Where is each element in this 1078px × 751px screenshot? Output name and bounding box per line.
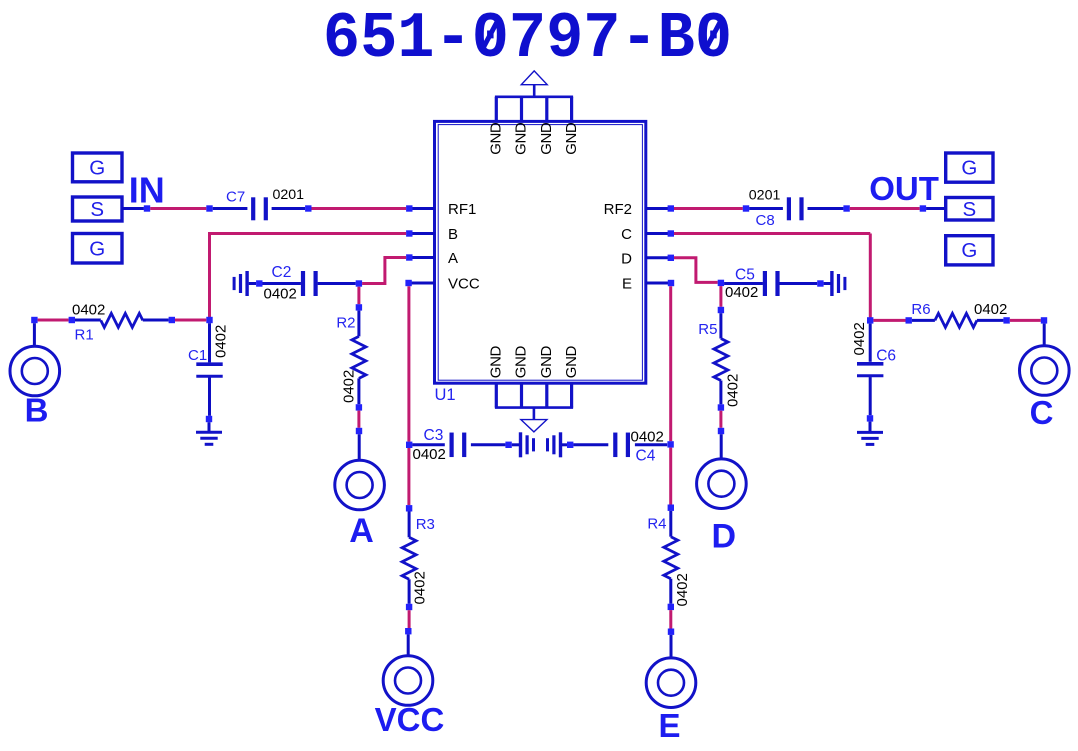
label VCC: [375, 701, 445, 738]
net A: [362, 258, 406, 284]
value 0402 (R1): [72, 301, 105, 318]
svg-text:651-0797-B0: 651-0797-B0: [323, 3, 732, 77]
label R2: [336, 315, 355, 332]
wire VCC pad stub: [407, 634, 410, 656]
resistor R5: [714, 339, 728, 381]
value 0402 (C1) rotated: [213, 325, 230, 358]
junction B/R1/C1 node: [206, 317, 212, 323]
IC U1 body: [435, 121, 646, 383]
wire C1 bottom lead: [208, 378, 211, 416]
label R5: [698, 321, 717, 338]
capacitor C5: [765, 271, 778, 296]
ground stack center-right: [548, 432, 561, 457]
wire R4 lead top: [669, 511, 672, 537]
svg-text:A: A: [349, 512, 374, 550]
net B vertical: [208, 232, 211, 318]
junction D pin: [668, 255, 674, 261]
wire D pad stub: [720, 434, 723, 459]
wire R5 lead top: [719, 313, 722, 338]
junction B pad stub: [31, 317, 37, 323]
junction VCC pin: [405, 280, 411, 286]
wire C8 right lead: [808, 207, 844, 210]
svg-text:B: B: [448, 226, 458, 243]
label C2: [272, 264, 292, 281]
junction R3 pin2: [406, 604, 412, 610]
net RF2 to C8: [674, 207, 743, 210]
junction R6 pin2: [1003, 317, 1009, 323]
value 0402 (C4): [631, 428, 664, 445]
svg-text:C3: C3: [424, 427, 444, 444]
svg-text:OUT: OUT: [869, 170, 939, 207]
wire R5 lead bottom: [719, 381, 722, 405]
wire S pad stub: [122, 207, 144, 210]
svg-text:0402: 0402: [725, 284, 758, 301]
wire C pad stub: [1043, 324, 1046, 346]
wire C5 gnd lead: [824, 282, 832, 285]
svg-text:C1: C1: [188, 347, 207, 364]
junction A pad stub: [356, 428, 362, 434]
svg-text:C6: C6: [876, 348, 896, 365]
title 651-0797-B0: [323, 3, 732, 77]
wire center to C4: [573, 443, 608, 446]
wire C5 left lead: [724, 282, 763, 285]
capacitor C8: [789, 197, 802, 220]
wire C8 left lead: [749, 207, 783, 210]
wire to left stack: [512, 443, 521, 446]
wire A pad stub: [358, 434, 361, 459]
resistor R1: [101, 313, 143, 327]
svg-text:0201: 0201: [749, 188, 781, 204]
resistor R3: [402, 537, 416, 579]
label R4: [647, 515, 666, 532]
net VCC vertical: [407, 286, 410, 441]
wire C5 right lead: [780, 282, 818, 285]
label C4: [636, 448, 656, 465]
svg-text:GND: GND: [488, 122, 505, 155]
svg-text:RF1: RF1: [448, 201, 476, 218]
net R3 to pad VCC: [408, 610, 411, 628]
junction S stub right: [920, 205, 926, 211]
junction B pin: [406, 230, 412, 236]
junction E pad stub: [668, 629, 674, 635]
wire C7 left lead: [213, 207, 248, 210]
label D: [712, 518, 737, 556]
label B: [25, 392, 49, 429]
power flag top: [521, 71, 547, 97]
svg-text:0402: 0402: [213, 325, 230, 358]
label IN: [129, 169, 165, 210]
svg-text:0402: 0402: [412, 571, 429, 604]
wire R3 lead bottom: [408, 579, 411, 604]
pad S left: [73, 197, 123, 221]
svg-text:R3: R3: [416, 516, 435, 533]
label C3: [424, 427, 444, 444]
wire C2 right lead: [318, 282, 356, 285]
pad G top-left: [73, 153, 123, 182]
net OUT wire: [850, 207, 920, 210]
pad C: [1020, 346, 1070, 396]
wire R4 lead bottom: [669, 579, 672, 604]
pad G bottom-left: [73, 234, 123, 264]
label R6: [911, 301, 930, 318]
svg-text:GND: GND: [513, 346, 530, 379]
svg-text:GND: GND: [488, 346, 505, 379]
junction C pin: [668, 230, 674, 236]
wire R6 lead left: [912, 319, 935, 322]
value 0402 (C5): [725, 284, 758, 301]
label C5: [735, 267, 755, 284]
junction R3 pin1: [406, 505, 412, 511]
net B horizontal: [210, 232, 407, 235]
junction D pad stub: [718, 428, 724, 434]
junction C8 right: [843, 205, 849, 211]
wire E pad stub: [670, 635, 673, 657]
junction C pad stub: [1041, 317, 1047, 323]
svg-text:U1: U1: [435, 386, 456, 404]
label C8: [756, 212, 775, 229]
svg-text:C: C: [621, 226, 632, 243]
svg-text:RF2: RF2: [604, 201, 632, 218]
value 0402 (C2): [264, 286, 297, 303]
pin D (right stub): [621, 250, 671, 267]
svg-text:C: C: [1030, 394, 1054, 431]
svg-text:GND: GND: [513, 122, 530, 155]
label C: [1030, 394, 1054, 431]
svg-text:C5: C5: [735, 267, 755, 284]
ground under C6: [857, 432, 883, 444]
pin E (right stub): [622, 276, 671, 293]
wire rail junction to C3: [412, 443, 444, 446]
junction C8 left: [743, 205, 749, 211]
junction R5 pin1: [718, 307, 724, 313]
net E vertical upper: [669, 286, 672, 441]
net node to R2: [357, 287, 360, 305]
wire B pad stub: [33, 323, 36, 346]
junction C7 left: [206, 205, 212, 211]
pin RF1 (left stub): [409, 201, 476, 218]
svg-text:C7: C7: [226, 189, 245, 206]
net D: [674, 258, 718, 283]
wire C4 to E net: [635, 443, 667, 446]
value 0402 (R4) rotated: [674, 573, 691, 606]
svg-text:C8: C8: [756, 212, 775, 229]
wire R1 lead left: [75, 319, 101, 322]
label E: [658, 707, 680, 744]
net VCC to R3: [407, 448, 410, 505]
junction RF2 pin: [668, 205, 674, 211]
junction C7 right: [305, 205, 311, 211]
junction A/C2/R2 node: [356, 280, 362, 286]
svg-text:R4: R4: [647, 515, 666, 532]
ground stack left of C2: [234, 271, 247, 296]
svg-text:IN: IN: [129, 169, 165, 210]
net R4 to pad E: [669, 610, 672, 628]
label A: [349, 512, 374, 550]
junction R2 pin1: [356, 304, 362, 310]
pins GND top labels: [488, 122, 580, 155]
junction C5 gnd: [817, 280, 823, 286]
junction A pin: [406, 254, 412, 260]
wire C1 ground stub: [208, 422, 211, 432]
junction R4 pin1: [668, 505, 674, 511]
pad VCC: [383, 656, 433, 706]
net node to R6: [873, 319, 905, 322]
pad E: [646, 658, 696, 708]
net C horizontal: [674, 232, 870, 235]
junction R1 pin2: [169, 317, 175, 323]
svg-text:0402: 0402: [851, 322, 868, 355]
wire R6 lead right: [977, 319, 1004, 322]
junction C2 gnd: [256, 280, 262, 286]
svg-text:D: D: [621, 250, 632, 267]
wire C6 ground stub: [869, 422, 872, 433]
top GND pins bracket: [495, 97, 573, 121]
net R1 to node: [175, 319, 206, 322]
svg-text:0402: 0402: [72, 301, 105, 318]
wire C3 to center: [471, 443, 506, 446]
net C vertical: [869, 234, 872, 319]
value 0402 (R2) rotated: [341, 370, 358, 403]
ground under C1: [196, 432, 222, 444]
pad G bottom-right: [946, 236, 993, 265]
svg-text:A: A: [448, 250, 458, 267]
U1 designator: [435, 386, 456, 404]
svg-text:0402: 0402: [341, 370, 358, 403]
capacitor C2: [303, 271, 316, 296]
wire R3 lead top: [408, 512, 411, 538]
svg-text:G: G: [89, 157, 105, 180]
pins GND bottom labels: [488, 346, 580, 379]
svg-text:0402: 0402: [725, 374, 742, 407]
pin C (right stub): [621, 226, 671, 243]
ground arrow bottom: [521, 408, 547, 432]
net IN to RF1: [312, 207, 407, 210]
wire C6 top lead: [869, 324, 872, 362]
pad D: [697, 459, 747, 509]
value 0402 (R6): [974, 301, 1007, 318]
pin VCC (left stub): [409, 276, 480, 293]
wire R2 lead bottom: [357, 378, 360, 404]
label C6: [876, 348, 896, 365]
svg-text:GND: GND: [563, 122, 580, 155]
value 0402 (C3): [413, 446, 446, 463]
junction E pin: [668, 280, 674, 286]
junction S stub: [144, 205, 150, 211]
svg-text:R6: R6: [911, 301, 930, 318]
junction R5 pin2: [718, 404, 724, 410]
svg-text:0402: 0402: [674, 573, 691, 606]
junction E rail: [667, 441, 673, 447]
value 0402 (C6) rotated: [851, 322, 868, 355]
wire C1 top lead: [208, 323, 211, 362]
junction R6 pin1: [906, 317, 912, 323]
net R6 to pad C: [1010, 319, 1041, 322]
svg-text:0201: 0201: [273, 187, 305, 203]
label OUT: [869, 170, 939, 207]
net R2 to pad A: [357, 411, 360, 428]
wire C7 right lead: [272, 207, 306, 210]
net R5 to pad D: [719, 411, 722, 428]
junction center-left: [505, 442, 511, 448]
junction C/R6/C6 node: [867, 317, 873, 323]
value 0402 (R3) rotated: [412, 571, 429, 604]
junction center-right: [567, 442, 573, 448]
junction VCC rail: [406, 442, 412, 448]
wire C6 bottom lead: [869, 377, 872, 415]
junction R4 pin2: [668, 604, 674, 610]
net node to R5: [719, 286, 722, 307]
pad A: [335, 460, 385, 510]
junction R1 pin1: [69, 317, 75, 323]
svg-text:0402: 0402: [974, 301, 1007, 318]
wire R1 lead right: [143, 319, 169, 322]
svg-text:E: E: [658, 707, 680, 744]
ground stack center-left: [521, 432, 534, 457]
capacitor C4: [615, 433, 628, 458]
capacitor C3: [452, 433, 465, 458]
bottom GND pins bracket: [495, 384, 573, 408]
net E to R4: [669, 448, 672, 505]
label R1: [75, 327, 94, 344]
junction C6 ground: [867, 415, 873, 421]
pin B (left stub): [409, 226, 458, 243]
label C1: [188, 347, 207, 364]
pad B: [10, 346, 60, 396]
svg-text:C4: C4: [636, 448, 656, 465]
pin RF2 (right stub): [604, 201, 671, 218]
capacitor C1: [196, 364, 222, 376]
wire right stack to junction: [562, 443, 567, 446]
wire S pad stub right: [926, 207, 946, 210]
svg-text:GND: GND: [538, 122, 555, 155]
svg-text:D: D: [712, 518, 737, 556]
wire C2 gnd lead: [249, 282, 256, 285]
value 0201 (C8): [749, 188, 781, 204]
pad G top-right: [946, 153, 993, 182]
net IN wire: [150, 207, 206, 210]
resistor R6: [935, 313, 977, 327]
wire C2 left lead: [263, 282, 301, 285]
net B pad to R1: [38, 319, 69, 322]
capacitor C7: [253, 197, 266, 220]
svg-text:GND: GND: [563, 346, 580, 379]
pad S right: [946, 198, 993, 222]
junction C1 ground: [206, 416, 212, 422]
label R3: [416, 516, 435, 533]
svg-text:R5: R5: [698, 321, 717, 338]
svg-text:GND: GND: [538, 346, 555, 379]
svg-text:G: G: [961, 239, 977, 262]
svg-text:0402: 0402: [631, 428, 664, 445]
junction VCC pad stub: [405, 628, 411, 634]
resistor R4: [664, 537, 678, 579]
svg-text:R1: R1: [75, 327, 94, 344]
value 0402 (R5) rotated: [725, 374, 742, 407]
wire R2 lead top: [357, 311, 360, 337]
svg-text:VCC: VCC: [375, 701, 445, 738]
junction D/C5/R5 node: [718, 280, 724, 286]
label C7: [226, 189, 245, 206]
svg-text:S: S: [90, 198, 104, 221]
svg-text:C2: C2: [272, 264, 292, 281]
svg-text:R2: R2: [336, 315, 355, 332]
svg-text:E: E: [622, 276, 632, 293]
resistor R2: [352, 336, 366, 378]
svg-text:B: B: [25, 392, 49, 429]
junction R2 pin2: [356, 404, 362, 410]
junction RF1: [406, 205, 412, 211]
capacitor C6: [857, 364, 883, 376]
ground stack right of C5: [832, 271, 845, 296]
svg-text:G: G: [961, 157, 977, 180]
svg-text:VCC: VCC: [448, 276, 480, 293]
svg-text:0402: 0402: [264, 286, 297, 303]
svg-text:G: G: [89, 238, 105, 261]
svg-text:S: S: [962, 198, 976, 221]
pin A (left stub): [409, 250, 458, 267]
value 0201 (C7): [273, 187, 305, 203]
svg-text:0402: 0402: [413, 446, 446, 463]
